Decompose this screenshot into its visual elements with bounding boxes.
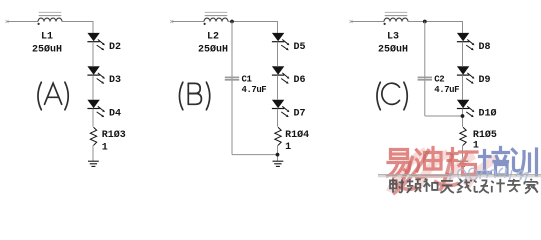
wire L1 to LED string (62, 21, 93, 23)
caption (C) (377, 82, 407, 110)
svg-text:D7: D7 (294, 109, 306, 120)
LED D8 (457, 33, 475, 50)
wire LED2-LED3 (277, 75, 279, 100)
wire L2 to LED string (228, 21, 278, 23)
LED D6 (272, 67, 290, 84)
wire LED1-LED2 (277, 42, 279, 67)
svg-text:D9: D9 (479, 75, 491, 86)
watermark char 迪 (red) (414, 148, 443, 178)
resistor R105 (460, 127, 466, 145)
wire input to L2 (172, 21, 204, 23)
watermark logo overlay (bottom right) (378, 148, 541, 195)
svg-text:4.7uF: 4.7uF (242, 85, 267, 95)
svg-text:D4: D4 (109, 109, 121, 120)
wire LED2-LED3 (92, 75, 94, 100)
svg-text:1: 1 (102, 143, 108, 154)
wire resistor to ground (277, 145, 279, 161)
resistor R104 (275, 127, 281, 145)
watermark char 培 (blue) (479, 148, 509, 176)
capacitor C1 (225, 77, 239, 79)
wire LED3 to resistor (462, 109, 464, 127)
wire LED1-LED2 (462, 42, 464, 67)
watermark slogan row 射频和天线设计专家 (gray) (390, 178, 538, 193)
wire C1 to LED string bottom (232, 154, 278, 156)
svg-text:L2: L2 (207, 32, 219, 43)
svg-text:4.7uF: 4.7uF (434, 85, 459, 95)
inductor L1 (38, 12, 63, 25)
svg-text:25ØuH: 25ØuH (32, 44, 62, 56)
svg-text:1: 1 (473, 141, 479, 152)
junction node top of C2 (423, 20, 427, 24)
wire resistor to ground (92, 145, 94, 161)
svg-text:D2: D2 (109, 42, 121, 53)
wire down to first LED (277, 21, 279, 33)
resistor R103 (90, 127, 96, 145)
LED D2 (87, 33, 105, 50)
watermark light blue italic ".com" text (449, 167, 528, 181)
wire L3 to LED string (408, 21, 463, 23)
wire LED3 to resistor (277, 109, 279, 127)
svg-text:1: 1 (285, 142, 291, 153)
svg-text:C2: C2 (434, 75, 444, 85)
svg-text:L1: L1 (41, 32, 53, 43)
svg-text:R1Ø4: R1Ø4 (285, 129, 309, 141)
capacitor C2 (418, 77, 432, 79)
wire input to L1 (7, 21, 38, 23)
wire resistor to ground (462, 145, 464, 161)
watermark char 拓 (red) (448, 149, 478, 175)
LED D10 (457, 100, 475, 117)
inductor L3 (384, 12, 409, 25)
wire down to first LED (92, 21, 94, 33)
junction node at x=462.5 (461, 114, 465, 118)
watermark char 训 (blue) (513, 149, 537, 176)
LED D9 (457, 67, 475, 84)
input pin circuit A (5, 20, 8, 23)
input pin circuit B (170, 20, 173, 23)
watermark char 易 (red) (388, 150, 411, 178)
LED D4 (87, 100, 105, 117)
svg-text:D6: D6 (294, 75, 306, 86)
ground circuit B (273, 161, 284, 166)
watermark faint pink italic backdrop strokes (390, 151, 498, 192)
wire LED2-LED3 (462, 75, 464, 100)
wire junction through C2 down (424, 22, 426, 117)
svg-text:L3: L3 (387, 32, 399, 43)
wire down to first LED (462, 21, 464, 33)
LED D7 (272, 100, 290, 117)
svg-text:R1Ø5: R1Ø5 (473, 129, 497, 141)
watermark gray rule (378, 174, 541, 176)
caption (A) (38, 82, 68, 110)
svg-text:D1Ø: D1Ø (479, 108, 497, 120)
svg-text:25ØuH: 25ØuH (198, 44, 228, 56)
svg-text:C1: C1 (242, 75, 253, 85)
svg-text:R1Ø3: R1Ø3 (102, 129, 126, 141)
svg-text:D8: D8 (479, 42, 491, 53)
inductor L2 (204, 12, 229, 25)
LED D3 (87, 67, 105, 84)
wire LED3 to resistor (92, 109, 94, 127)
watermark dark red cursive swirl (393, 149, 459, 194)
ground circuit A (88, 161, 99, 166)
junction node at x=277.5 (276, 153, 280, 157)
LED D5 (272, 33, 290, 50)
ground circuit C (458, 161, 469, 166)
wire LED1-LED2 (92, 42, 94, 67)
junction node top of C1 (230, 20, 234, 24)
svg-text:25ØuH: 25ØuH (378, 44, 408, 56)
caption (B) (179, 82, 209, 110)
svg-text:D5: D5 (294, 42, 306, 53)
svg-text:D3: D3 (109, 75, 121, 86)
wire C2 to LED string bottom (425, 115, 463, 117)
wire input to L3 (351, 21, 384, 23)
input pin circuit C (349, 20, 352, 23)
wire junction through C1 down (231, 22, 233, 155)
